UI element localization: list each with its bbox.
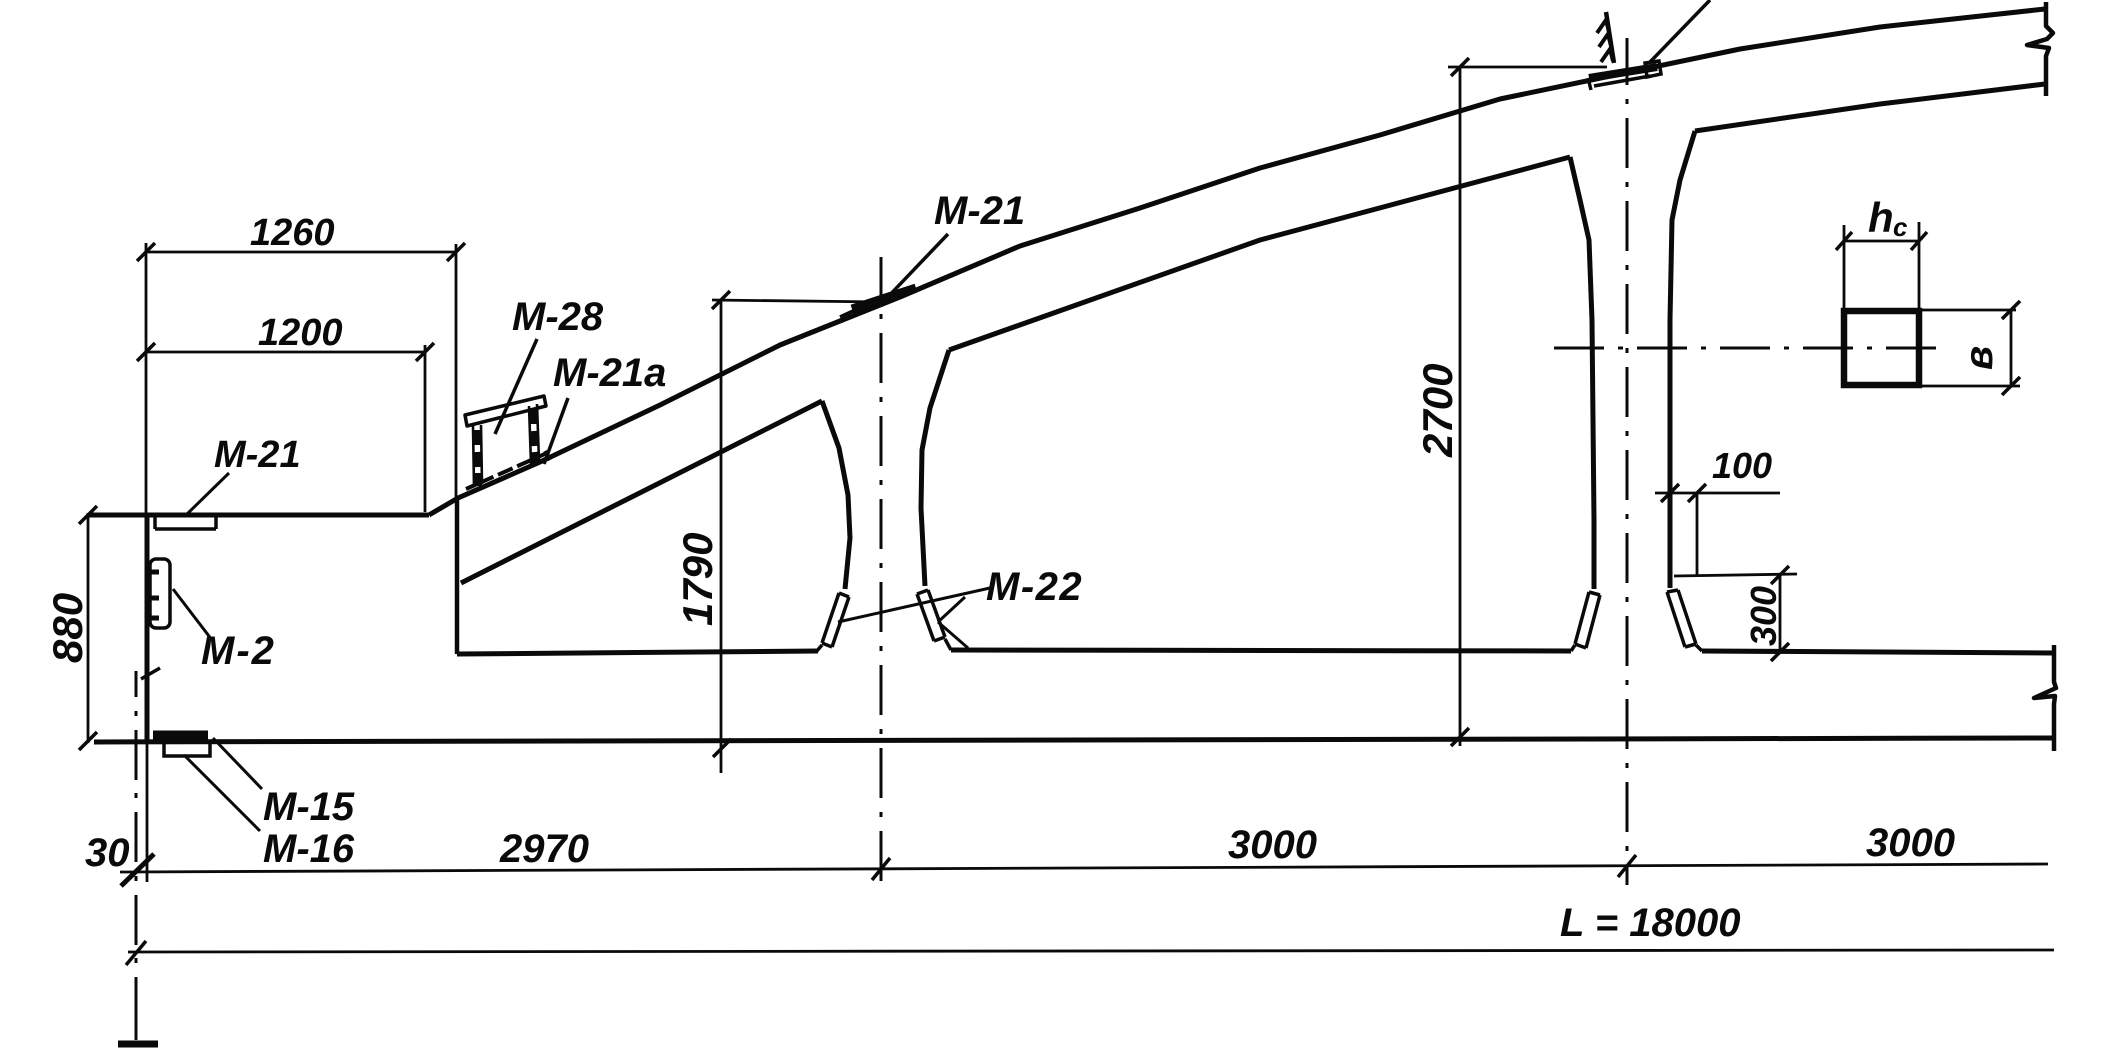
svg-text:h: h (1868, 194, 1894, 241)
svg-text:2700: 2700 (1414, 364, 1461, 458)
break mark bottom right (2034, 645, 2056, 751)
bottom chord top line opening 2 (951, 650, 1571, 651)
top chord inner line segment 1 (461, 401, 822, 583)
dimension 1200 (137, 343, 434, 512)
section detail square (1836, 222, 2020, 395)
svg-text:M-16: M-16 (263, 827, 355, 871)
break mark top right (2027, 2, 2053, 96)
dimension 1260 (137, 243, 465, 515)
svg-text:в: в (1957, 346, 2001, 370)
tick on end face near axis (141, 668, 160, 679)
svg-text:M-21: M-21 (934, 189, 1025, 233)
svg-text:1260: 1260 (250, 212, 335, 254)
dimension 880 (79, 506, 97, 750)
leader M-22 (838, 588, 990, 648)
section centerline horizontal (1554, 347, 1940, 350)
left end face (145, 515, 150, 741)
web post 1 right edge (921, 350, 949, 586)
fir anchor mark at ridge (1597, 12, 1614, 63)
top chord inner line segment 3 (1695, 84, 2045, 131)
svg-text:c: c (1893, 212, 1908, 242)
support axis centerline left (118, 671, 158, 1044)
ridge support plate on chord (1588, 61, 1661, 90)
svg-text:L = 18000: L = 18000 (1560, 901, 1741, 945)
bearing pad M-22 post2 left (1571, 592, 1600, 651)
svg-text:3000: 3000 (1228, 823, 1317, 867)
assembly M-28 channel on slope (465, 396, 550, 489)
bottom dimension line 2970 / 3000 / 3000 (120, 741, 2048, 886)
leader M-21 left (185, 473, 229, 516)
bearing pad M-22 post1 right (917, 590, 951, 650)
beam bottom edge (94, 738, 2054, 742)
leader M-21a (544, 398, 568, 464)
svg-text:2970: 2970 (499, 827, 589, 871)
svg-text:M-2: M-2 (201, 629, 276, 673)
svg-text:M-22: M-22 (986, 565, 1083, 609)
dimension 300 (1674, 566, 1797, 661)
web post 1 left edge (822, 401, 850, 589)
web post 2 left edge (1570, 157, 1594, 589)
post 2 centerline (1626, 38, 1629, 885)
bottom chord top line opening 1 (457, 651, 818, 654)
top chord inner line segment 2 (949, 157, 1570, 350)
web post 2 right edge (1670, 131, 1695, 588)
beam top edge left horizontal (88, 513, 429, 518)
svg-text:M-15: M-15 (263, 785, 355, 829)
bearing pad M-22 post1 left (816, 593, 849, 652)
top chord outer line (429, 9, 2045, 515)
leader M-28 (495, 339, 537, 434)
opening 1 left edge (455, 497, 460, 654)
svg-text:30: 30 (85, 831, 130, 875)
embedded plate M-21 mid chord (840, 288, 916, 317)
post 1 centerline (880, 257, 883, 881)
leader M-21 mid (884, 234, 948, 301)
leader M-2 (173, 589, 212, 640)
dimension 1790 (712, 291, 884, 773)
bearing pad M-22 post2 right (1667, 590, 1702, 651)
embedded plate M-2 on end face (150, 559, 170, 628)
embedded plate M-16 below bottom edge (164, 744, 210, 756)
svg-text:3000: 3000 (1866, 821, 1955, 865)
leader ridge plate (1650, 0, 1710, 62)
embedded plate M-21 top left corner (155, 517, 216, 529)
embedded plate M-15 flush above bottom (153, 731, 208, 740)
svg-text:M-28: M-28 (512, 295, 604, 339)
dimension 2700 (1448, 58, 1607, 746)
svg-text:1790: 1790 (674, 533, 721, 626)
dimension line L=18000 (126, 941, 2054, 965)
svg-text:M-21: M-21 (214, 434, 301, 476)
leader M-16 (184, 755, 260, 831)
svg-text:M-21a: M-21a (553, 351, 666, 395)
leader M-15 (213, 738, 262, 789)
svg-text:1200: 1200 (258, 312, 343, 354)
svg-text:300: 300 (1743, 586, 1784, 646)
svg-text:100: 100 (1712, 445, 1772, 486)
svg-text:880: 880 (44, 593, 91, 663)
dimension 100 (1655, 484, 1780, 577)
bottom chord top line opening 3 (1702, 651, 2054, 653)
